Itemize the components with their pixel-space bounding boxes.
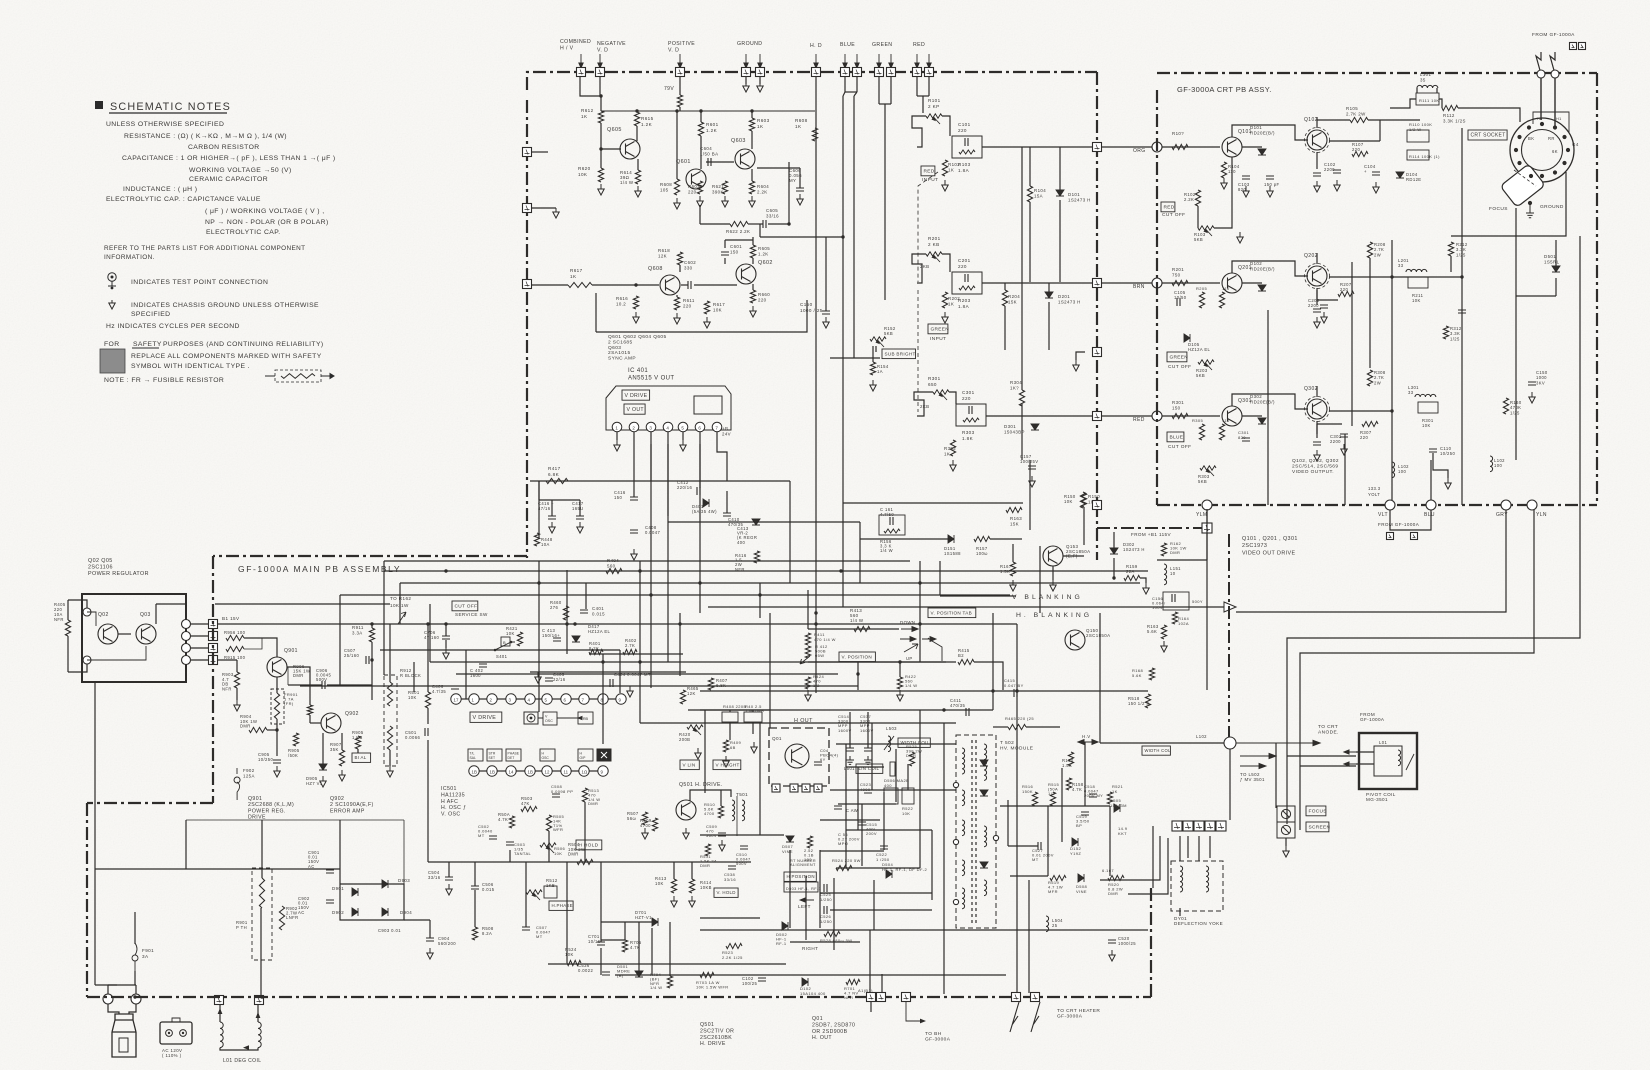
resistor R201 xyxy=(1172,280,1188,285)
svg-text:2SC1106: 2SC1106 xyxy=(88,565,113,571)
svg-text:3A: 3A xyxy=(142,954,149,959)
label R424 xyxy=(813,674,825,688)
wire xyxy=(134,912,136,944)
ground xyxy=(870,380,876,391)
svg-text:33/16: 33/16 xyxy=(724,877,736,882)
wire xyxy=(155,604,157,624)
label R956 100 xyxy=(224,630,246,635)
svg-text:INDICATES TEST POINT CON: INDICATES TEST POINT CONNECTION xyxy=(131,279,268,286)
connector J1 xyxy=(215,996,224,1005)
wire xyxy=(700,709,993,711)
node H1 xyxy=(1537,70,1545,78)
wire xyxy=(191,623,208,625)
svg-text:TO BH: TO BH xyxy=(925,1031,942,1037)
wire xyxy=(601,110,815,112)
svg-text:165U: 165U xyxy=(572,506,584,511)
diode D701 xyxy=(652,918,658,926)
svg-text:560/200: 560/200 xyxy=(438,941,456,946)
label R112 xyxy=(1443,113,1466,124)
wire xyxy=(389,750,391,766)
label R201 xyxy=(1172,267,1184,278)
svg-text:25/160: 25/160 xyxy=(344,653,359,658)
svg-text:35K: 35K xyxy=(330,747,339,752)
label R516 xyxy=(1022,784,1034,794)
ground xyxy=(234,700,240,711)
wire xyxy=(691,862,693,879)
label R110 xyxy=(1409,122,1432,132)
svg-text:R620: R620 xyxy=(578,166,591,171)
wire xyxy=(881,974,883,992)
label F902 125A xyxy=(243,768,255,779)
ground xyxy=(1341,444,1347,455)
svg-text:10A: 10A xyxy=(541,542,550,547)
wire xyxy=(867,712,869,748)
svg-text:12K: 12K xyxy=(687,691,696,696)
connector pin xyxy=(790,784,798,792)
wire xyxy=(68,600,87,608)
svg-text:220: 220 xyxy=(683,304,692,309)
boxed label GREEN INPUT xyxy=(928,324,949,334)
wire xyxy=(805,876,807,940)
wire xyxy=(339,595,341,685)
boxed label BI AL xyxy=(352,753,371,762)
capacitor C538 xyxy=(728,866,736,869)
svg-text:1S2473 H: 1S2473 H xyxy=(1123,547,1145,552)
svg-text:LNFR: LNFR xyxy=(286,915,299,920)
GF-1000A assembly bottom border xyxy=(87,996,1151,998)
diode D301 xyxy=(1031,424,1039,430)
connector L6c xyxy=(1202,523,1212,533)
IC501 pin 1Ω xyxy=(579,766,589,776)
label D701 xyxy=(635,910,652,920)
ground xyxy=(1373,182,1379,193)
capacitor C602 xyxy=(688,281,691,289)
wire xyxy=(912,116,926,147)
diode D905 xyxy=(319,764,327,770)
junction xyxy=(635,109,638,112)
svg-text:R408 220B: R408 220B xyxy=(723,704,747,709)
svg-text:1K: 1K xyxy=(570,274,577,279)
svg-text:PURPOSES (AND CONTINUING: PURPOSES (AND CONTINUING RELIABILITY) xyxy=(163,341,324,348)
wire xyxy=(1076,352,1085,360)
label R207 xyxy=(1340,282,1352,292)
label C510 xyxy=(736,852,751,866)
wire xyxy=(815,560,817,693)
label R152 xyxy=(884,326,896,336)
resistor R907 xyxy=(339,750,344,766)
label R915 100 xyxy=(224,655,246,660)
label R154 xyxy=(877,364,889,374)
svg-text:133.3: 133.3 xyxy=(1368,486,1381,491)
svg-text:15K: 15K xyxy=(1008,300,1017,305)
label C606 xyxy=(789,168,802,183)
wire xyxy=(842,96,844,607)
svg-text:H0: H0 xyxy=(1537,117,1543,121)
label R50A xyxy=(498,812,510,822)
svg-text:MFR: MFR xyxy=(1048,889,1058,894)
svg-text:1/4 W: 1/4 W xyxy=(880,548,893,553)
label COMBINED H/V xyxy=(560,39,591,52)
wire xyxy=(1329,410,1392,412)
wire xyxy=(380,649,620,651)
label L102 xyxy=(1494,458,1505,468)
svg-text:VIDEO OUTPUT.: VIDEO OUTPUT. xyxy=(1292,469,1334,475)
R40 box xyxy=(744,712,762,722)
wire xyxy=(589,653,683,655)
svg-text:1S2473 H: 1S2473 H xyxy=(1058,300,1081,305)
svg-text:2.7K 2W: 2.7K 2W xyxy=(1346,112,1366,117)
label C519 xyxy=(1076,814,1090,828)
capacitor C509 xyxy=(718,833,726,836)
wire xyxy=(551,500,553,516)
svg-text:RD20E(B/): RD20E(B/) xyxy=(1250,131,1275,136)
svg-text:TANTAL: TANTAL xyxy=(514,851,532,856)
label CUT OFF xyxy=(1168,364,1192,370)
resistor R103 xyxy=(959,150,975,154)
resistor R608 xyxy=(812,128,817,141)
label Q202 xyxy=(1304,253,1318,259)
wire xyxy=(1287,236,1580,824)
transistor Q153 xyxy=(1043,546,1063,566)
resistor R164 xyxy=(1172,612,1177,624)
label R704 xyxy=(650,972,662,990)
label R102 xyxy=(948,162,960,173)
IC501 pin 2 xyxy=(487,694,497,704)
label R150 xyxy=(1088,494,1100,505)
svg-text:D901: D901 xyxy=(332,886,344,891)
svg-text:MT: MT xyxy=(1032,857,1039,862)
label R608 1K xyxy=(795,118,808,129)
label C536 xyxy=(578,963,593,973)
wire xyxy=(267,729,277,731)
svg-text:1S5RL: 1S5RL xyxy=(1544,260,1560,265)
svg-text:200V: 200V xyxy=(866,831,877,836)
IC501 pin 4 xyxy=(525,694,535,704)
wire xyxy=(1369,258,1371,368)
label R413 xyxy=(850,608,864,623)
label GF-3000A CRT PB ASSY xyxy=(1177,85,1272,94)
wire xyxy=(236,688,238,700)
wire xyxy=(1540,78,1542,120)
label R506 xyxy=(554,846,566,856)
notes bullet xyxy=(95,101,103,109)
label C101 xyxy=(958,122,971,133)
wire xyxy=(1536,52,1541,74)
label R911 xyxy=(352,625,364,636)
label C04 xyxy=(820,748,839,762)
wire xyxy=(857,662,859,690)
T502 winding 5 xyxy=(984,880,987,896)
svg-text:5.6K: 5.6K xyxy=(1147,629,1157,634)
svg-text:Q501 H. DRIVE.: Q501 H. DRIVE. xyxy=(679,782,723,788)
svg-text:820: 820 xyxy=(1238,435,1246,440)
resistor R501 xyxy=(425,692,430,708)
svg-text:V. D: V. D xyxy=(597,48,608,54)
resistor R402 xyxy=(623,649,637,654)
fusible resistor symbol xyxy=(265,370,321,382)
note line xyxy=(104,254,155,261)
resistor R404 xyxy=(606,568,622,573)
node H2 xyxy=(1551,70,1559,78)
resistor R202 xyxy=(942,292,947,308)
svg-text:2200: 2200 xyxy=(1330,439,1341,444)
trimmer R301 xyxy=(933,390,949,394)
T502 pin xyxy=(953,782,958,787)
svg-text:V HEIGHT: V HEIGHT xyxy=(716,762,740,767)
wire xyxy=(474,862,476,886)
ground xyxy=(749,196,755,207)
label H.D xyxy=(810,43,822,49)
svg-text:1.5K: 1.5K xyxy=(1062,763,1072,768)
transistor Q902 xyxy=(321,713,341,733)
svg-text:Q603: Q603 xyxy=(608,345,621,351)
capacitor C AW xyxy=(834,806,842,809)
wire xyxy=(538,481,540,500)
ground xyxy=(1237,232,1243,243)
svg-text:CARBON RESISTOR: CARBON RESISTOR xyxy=(188,144,260,151)
label C302 xyxy=(1330,434,1342,444)
note line xyxy=(104,341,120,348)
junction xyxy=(678,622,681,625)
label GRY xyxy=(1496,512,1508,518)
svg-text:V BLANKING: V BLANKING xyxy=(1012,594,1083,601)
resistor R505 xyxy=(546,815,551,831)
svg-text:RED: RED xyxy=(1164,204,1175,210)
boxed label BLUE CUT OFF xyxy=(1167,432,1184,442)
label R402 xyxy=(625,638,637,648)
svg-text:1.8K: 1.8K xyxy=(962,436,974,441)
capacitor C103 xyxy=(1242,176,1250,179)
svg-text:17: 17 xyxy=(454,698,459,703)
svg-text:100: 100 xyxy=(1494,463,1502,468)
label D502 xyxy=(776,932,788,946)
transistor Q02 xyxy=(98,624,118,644)
capacitor C527 xyxy=(1038,842,1041,850)
svg-text:SCREEN: SCREEN xyxy=(1309,824,1331,830)
wire xyxy=(287,667,310,705)
resistor R912b xyxy=(387,726,392,750)
capacitor C606 xyxy=(796,188,804,191)
wire xyxy=(413,662,415,692)
svg-text:2.2K: 2.2K xyxy=(1184,197,1194,202)
svg-text:10K: 10K xyxy=(408,695,417,700)
wire xyxy=(679,77,681,95)
connector C3 xyxy=(1579,43,1586,50)
resistor R162 xyxy=(1161,543,1166,556)
label R620 10K xyxy=(578,166,591,177)
label C537 xyxy=(860,714,874,733)
resistor R308 xyxy=(1367,370,1372,386)
resistor R16x xyxy=(1149,668,1154,680)
label L504 xyxy=(1052,918,1063,928)
svg-text:2SC2688 (K,L,M): 2SC2688 (K,L,M) xyxy=(248,802,294,808)
wire xyxy=(215,603,390,605)
svg-text:D904: D904 xyxy=(400,910,412,915)
svg-text:TO CRT HEATER: TO CRT HEATER xyxy=(1057,1008,1100,1014)
label C102 xyxy=(742,976,757,986)
resistor R111 box xyxy=(1416,93,1439,105)
label R416 xyxy=(735,553,747,572)
GF-1000A assembly right border xyxy=(1096,72,1098,560)
svg-text:102A: 102A xyxy=(1178,621,1189,626)
svg-text:500Y: 500Y xyxy=(1192,599,1203,604)
label R525 xyxy=(906,744,922,758)
IC401 inner block xyxy=(694,396,722,414)
IC501 pin 1B xyxy=(487,766,497,776)
connector arrow xyxy=(814,54,818,68)
junction xyxy=(699,109,702,112)
svg-text:0.0098 PP: 0.0098 PP xyxy=(551,789,573,794)
label C605 xyxy=(766,208,779,219)
label C902 xyxy=(298,896,310,915)
svg-text:BLUE: BLUE xyxy=(840,42,855,48)
label R422 xyxy=(905,674,917,688)
svg-text:10: 10 xyxy=(1170,571,1176,576)
svg-text:V LIN: V LIN xyxy=(683,762,696,767)
wire xyxy=(843,92,845,96)
label Q302 xyxy=(1304,386,1318,392)
wire xyxy=(912,254,926,283)
trimmer R303 xyxy=(1200,466,1216,470)
label SERVICE SW xyxy=(455,612,488,617)
wire xyxy=(853,96,855,358)
fuse F901 xyxy=(132,943,138,971)
resistor R50A xyxy=(509,816,514,828)
svg-text:UNLESS OTHERWISE SPECIFIED: UNLESS OTHERWISE SPECIFIED xyxy=(106,121,224,128)
flyback diode 1 xyxy=(980,760,988,766)
label D101 xyxy=(1068,192,1091,203)
boxed label RED INPUT xyxy=(921,166,935,176)
transistor Q608 xyxy=(660,275,680,295)
label R211 xyxy=(1412,293,1424,303)
svg-text:V. D: V. D xyxy=(668,48,679,54)
wire xyxy=(276,719,278,730)
svg-text:R BLOCK: R BLOCK xyxy=(400,673,421,678)
IC501 block osc circle xyxy=(524,712,538,724)
ground xyxy=(631,549,637,560)
wire xyxy=(751,111,753,118)
label C507b xyxy=(536,925,551,939)
svg-text:Q03: Q03 xyxy=(140,612,151,618)
label R405 xyxy=(54,602,66,622)
wire xyxy=(1242,146,1262,148)
junction xyxy=(839,569,842,572)
svg-text:R615: R615 xyxy=(641,116,654,121)
capacitor C601 xyxy=(721,252,729,255)
svg-text:2W: 2W xyxy=(1374,253,1381,258)
boxed label LIN COIL xyxy=(856,764,883,773)
svg-text:1000: 1000 xyxy=(1536,375,1547,380)
transistor Q501 xyxy=(676,800,696,820)
svg-text:VINE: VINE xyxy=(782,849,793,854)
label Q03 xyxy=(140,612,151,618)
IC501 pin 9 xyxy=(616,694,626,704)
svg-text:GROUND: GROUND xyxy=(737,41,762,47)
label HV xyxy=(1082,734,1091,739)
svg-text:FOCUS: FOCUS xyxy=(1489,206,1508,212)
capacitor C508 xyxy=(552,794,560,797)
wire xyxy=(341,733,343,750)
label R157 xyxy=(976,546,988,556)
connector K1 xyxy=(1570,43,1577,50)
T502 HV winding xyxy=(984,744,987,780)
wire xyxy=(724,240,726,248)
resistor R465b xyxy=(1008,724,1026,729)
label R523 xyxy=(722,950,743,960)
wire xyxy=(1555,278,1557,296)
IC501 pin 8 xyxy=(598,694,608,704)
junction xyxy=(856,672,859,675)
svg-text:1/4 W: 1/4 W xyxy=(620,180,634,185)
IC501 pin 9 xyxy=(598,766,608,776)
svg-text:F902: F902 xyxy=(243,768,255,773)
junction xyxy=(634,283,637,286)
label S401 xyxy=(496,654,508,659)
resistor R412 xyxy=(805,646,810,658)
svg-text:R617: R617 xyxy=(570,268,583,273)
wire xyxy=(1317,423,1342,425)
svg-text:1/250: 1/250 xyxy=(820,897,832,902)
label 110 xyxy=(1222,418,1230,423)
svg-text:A1(B1): A1(B1) xyxy=(858,988,873,993)
ground xyxy=(674,198,680,209)
connector 6 xyxy=(131,994,141,1004)
wire xyxy=(616,432,618,440)
label C110 xyxy=(1440,446,1455,456)
svg-text:H. DRIVE: H. DRIVE xyxy=(700,1041,726,1047)
label R208 xyxy=(1374,242,1386,258)
diode D505 xyxy=(1114,804,1120,812)
svg-text:NFR: NFR xyxy=(222,686,232,691)
label R905b xyxy=(352,730,364,740)
svg-text:INFORMATION.: INFORMATION. xyxy=(104,254,155,261)
wire xyxy=(1242,415,1262,417)
wire xyxy=(580,77,601,111)
wire xyxy=(949,392,956,404)
label R524c xyxy=(565,947,577,957)
label UP xyxy=(906,656,913,661)
heater wires xyxy=(1010,1002,1040,1032)
wire xyxy=(1436,88,1438,93)
IC501 mid row wires xyxy=(538,716,582,719)
label TO CRT HEATER xyxy=(1057,1008,1100,1019)
connector F3 xyxy=(742,68,751,77)
inductor L301t xyxy=(1417,85,1438,88)
wire xyxy=(371,642,373,700)
svg-text:NFR: NFR xyxy=(844,995,853,1000)
IC501 pin 5 xyxy=(542,694,552,704)
note line xyxy=(206,229,281,236)
svg-text:L01 DEG COIL: L01 DEG COIL xyxy=(223,1058,261,1064)
wire xyxy=(580,68,582,72)
T502 winding 2 xyxy=(962,820,965,836)
svg-text:BRN: BRN xyxy=(1133,284,1145,290)
wire xyxy=(1187,836,1189,858)
wire xyxy=(1439,99,1442,108)
node BLU xyxy=(1426,500,1436,510)
wire xyxy=(191,647,208,649)
wire xyxy=(694,284,737,286)
capacitor C413 xyxy=(553,638,561,641)
wire xyxy=(403,820,405,884)
wire xyxy=(768,223,789,225)
label R611 xyxy=(683,298,695,309)
svg-text:ELECTROLYTIC CAP. : CAPICTAN: ELECTROLYTIC CAP. : CAPICTANCE VALUE xyxy=(106,196,261,203)
resistor R519 xyxy=(1050,875,1066,880)
connector 1 xyxy=(103,994,113,1004)
svg-text:500V: 500V xyxy=(316,677,327,682)
label R205 xyxy=(1196,286,1208,291)
